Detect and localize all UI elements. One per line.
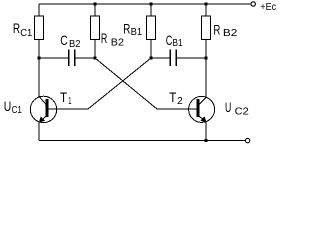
terminal +Ec [251,2,255,6]
wire R_B2 bottom to node B [94,40,96,59]
svg-text:B2: B2 [69,39,81,50]
junction node A [38,57,41,60]
junction node B [94,57,97,60]
svg-text:R: R [13,20,20,36]
wire R_B1 bottom to node C [150,40,152,59]
wire cross-coupling node C to T1 base [88,58,151,109]
label R_B1 [123,21,142,38]
svg-text:C1: C1 [20,28,32,39]
wire stub R_B1 top [150,4,152,16]
wire T2 base horizontal [157,108,197,110]
transistor T1 [30,96,56,122]
svg-text:U: U [4,98,11,114]
wire node A to C_B2 [39,57,68,59]
junction bottom rail at T2 emitter [205,139,208,142]
wire bottom rail [39,140,245,142]
label R_C1 [13,20,33,39]
resistor R_C1 [35,16,44,40]
svg-text:T: T [60,89,67,105]
svg-text:U: U [225,99,231,115]
label C_B1 [166,32,183,49]
resistor R_B2 right [202,16,211,40]
label C_B2 [60,32,81,50]
label U_C2 [225,99,249,118]
wire cross-coupling node B to T2 base [95,58,157,109]
wire T1 base horizontal [47,108,88,110]
svg-text:C2: C2 [235,107,250,118]
junction node D [205,57,208,60]
capacitor C_B1 [170,50,176,66]
wire R_C2 bottom to node D [205,40,207,59]
resistor R_B1 [147,16,156,40]
svg-text:B1: B1 [131,27,143,38]
svg-text:B1: B1 [172,38,183,49]
wire C_B1 to node D [177,57,206,59]
label U_C1 [4,98,22,116]
svg-text:1: 1 [68,96,71,107]
svg-text:R: R [123,21,130,37]
wire T2 emitter to bottom rail [205,122,207,141]
wire R_C1 bottom to node A [38,40,40,59]
wire C_B2 to node B [75,57,95,59]
label T1 [60,89,72,107]
junction top rail at R_C2 [205,3,208,6]
wire node A down to T1 collector [38,58,40,97]
label R_B2 [101,30,125,48]
svg-text:B2: B2 [111,37,125,48]
svg-text:2: 2 [177,96,183,107]
svg-text:C1: C1 [12,105,23,116]
junction top rail at R_B1 [150,3,153,6]
transistor T2 [189,96,215,122]
wire stub R_C2 top [205,4,207,16]
junction node C [150,57,153,60]
capacitor C_B2 [69,50,75,66]
wire stub R_B2 top [94,4,96,16]
svg-text:B2: B2 [223,28,238,39]
wire node D down to T2 collector [205,58,207,97]
wire stub R_C1 top [38,4,40,16]
label R_B2 right [213,21,238,39]
wire node C to C_B1 [151,57,170,59]
svg-text:+Ec: +Ec [260,1,276,13]
resistor R_B2 [91,16,100,40]
label T2 [169,89,183,107]
svg-text:R: R [213,21,220,37]
terminal bottom right [245,138,249,142]
label +Ec [260,1,276,13]
svg-text:T: T [169,89,176,105]
svg-text:C: C [60,32,67,48]
svg-text:R: R [101,30,107,46]
wire T1 emitter to bottom rail [38,122,40,141]
junction top rail at R_B2 [94,3,97,6]
wire top supply rail [39,3,251,5]
